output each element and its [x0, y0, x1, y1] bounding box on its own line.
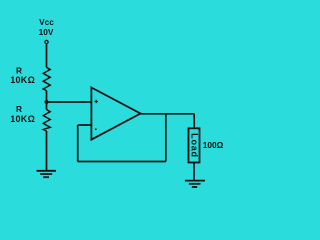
resistor R1 [43, 67, 50, 90]
svg-text:Load: Load [190, 133, 200, 158]
svg-text:100Ω: 100Ω [203, 140, 224, 150]
wire feedback left vertical [77, 125, 79, 162]
wire load to ground [193, 163, 195, 181]
wire Vcc terminal to R1 [46, 44, 48, 67]
pin + (non-inverting) [95, 100, 98, 103]
wire junction to op-amp + input [47, 101, 92, 103]
resistor R2 [43, 110, 50, 132]
svg-text:R: R [16, 66, 22, 76]
ground (right) [185, 181, 205, 187]
wire feedback right vertical [165, 114, 167, 162]
wire R2 to ground [46, 131, 48, 171]
svg-text:Vcc: Vcc [39, 17, 54, 27]
wire junction to R2 [46, 102, 48, 110]
ground (left) [37, 171, 57, 177]
svg-text:10KΩ: 10KΩ [10, 114, 35, 124]
wire R1 to junction [46, 91, 48, 102]
svg-text:10KΩ: 10KΩ [10, 75, 35, 85]
svg-text:R: R [16, 104, 22, 114]
op-amp U1 [91, 88, 140, 140]
wire op-amp output [141, 113, 195, 115]
Vcc terminal [45, 40, 48, 43]
pin - (inverting) [95, 128, 97, 130]
wire feedback bottom [78, 161, 166, 163]
wire output to load [193, 114, 195, 129]
svg-text:10V: 10V [39, 27, 54, 37]
node junction dot [45, 100, 49, 104]
wire feedback to op-amp - input [78, 124, 92, 126]
resistor RL load body [189, 128, 200, 162]
